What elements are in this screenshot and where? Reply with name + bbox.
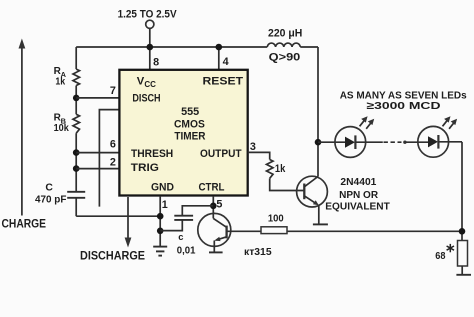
svg-text:CMOS: CMOS	[174, 119, 205, 131]
svg-text:68: 68	[435, 251, 445, 262]
svg-text:555: 555	[181, 106, 199, 118]
svg-text:TIMER: TIMER	[174, 131, 205, 143]
svg-text:1k: 1k	[275, 163, 286, 175]
svg-text:кт315: кт315	[244, 247, 272, 258]
svg-text:CC: CC	[144, 80, 156, 89]
svg-text:5: 5	[216, 199, 222, 211]
svg-text:2N4401: 2N4401	[340, 176, 376, 188]
svg-text:2: 2	[110, 156, 116, 168]
svg-text:OUTPUT: OUTPUT	[200, 148, 242, 160]
svg-text:3: 3	[250, 141, 256, 153]
svg-text:CHARGE: CHARGE	[2, 217, 47, 231]
svg-text:EQUIVALENT: EQUIVALENT	[325, 201, 390, 213]
svg-text:DISCHARGE: DISCHARGE	[80, 249, 145, 263]
svg-text:1: 1	[162, 199, 168, 211]
svg-text:0,01: 0,01	[177, 245, 196, 256]
svg-text:RESET: RESET	[203, 76, 244, 88]
svg-text:220 μH: 220 μH	[268, 27, 302, 39]
svg-text:6: 6	[110, 139, 116, 151]
svg-text:470 pF: 470 pF	[35, 195, 66, 206]
svg-text:1k: 1k	[55, 76, 65, 87]
svg-text:C: C	[45, 182, 53, 193]
svg-text:10k: 10k	[54, 123, 70, 134]
svg-text:Q>90: Q>90	[269, 52, 301, 64]
svg-text:100: 100	[268, 213, 284, 224]
svg-text:7: 7	[110, 85, 116, 97]
svg-text:AS MANY AS SEVEN LEDs: AS MANY AS SEVEN LEDs	[340, 91, 467, 102]
svg-text:DISCH: DISCH	[132, 93, 160, 105]
svg-text:≥3000 MCD: ≥3000 MCD	[367, 101, 442, 112]
svg-text:GND: GND	[151, 182, 174, 194]
svg-text:TRIG: TRIG	[131, 162, 159, 174]
svg-text:c: c	[178, 231, 183, 242]
svg-text:CTRL: CTRL	[199, 182, 225, 194]
svg-text:8: 8	[153, 57, 159, 69]
svg-text:1.25 TO 2.5V: 1.25 TO 2.5V	[118, 9, 178, 21]
svg-text:THRESH: THRESH	[131, 148, 173, 160]
svg-text:4: 4	[223, 56, 229, 68]
svg-text:NPN OR: NPN OR	[339, 189, 378, 201]
